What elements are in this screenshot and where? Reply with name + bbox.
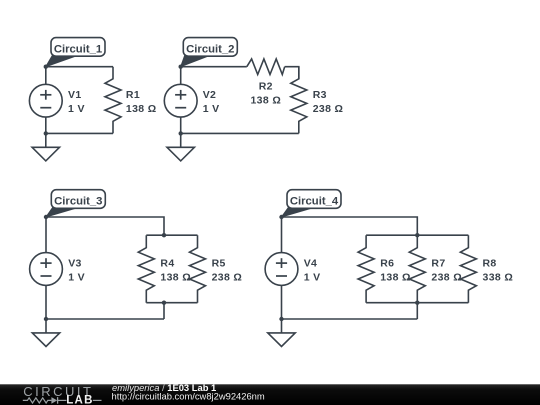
node junction bottom-left circuit 3 (44, 317, 48, 321)
svg-text:138 Ω: 138 Ω (250, 95, 281, 107)
net flag Circuit_2 (181, 38, 238, 67)
svg-text:338 Ω: 338 Ω (483, 272, 514, 284)
resistor R2 (247, 59, 285, 75)
wire top circuit 3 (46, 217, 164, 235)
ground (32, 319, 59, 347)
svg-text:138 Ω: 138 Ω (126, 103, 157, 115)
svg-text:Circuit_2: Circuit_2 (186, 43, 234, 55)
svg-text:238 Ω: 238 Ω (313, 103, 344, 115)
wire V4 bottom lead (281, 285, 283, 319)
node junction bottom-left circuit 1 (44, 131, 48, 135)
net flag Circuit_1 (46, 38, 105, 67)
voltage source V4 (circuit 4) (265, 253, 298, 286)
svg-text:R8: R8 (483, 258, 497, 270)
node junction top-left circuit 1 (44, 65, 48, 69)
voltage source V3 (circuit 3) (30, 253, 63, 286)
svg-text:Circuit_4: Circuit_4 (290, 196, 339, 208)
svg-text:R1: R1 (126, 89, 140, 101)
ground (167, 133, 194, 161)
wire V2 top lead (180, 67, 182, 85)
wire bottom circuit 4 (282, 318, 418, 320)
ground (268, 319, 295, 347)
node junction top bar circuit 3 (162, 233, 166, 237)
wire top (node Circuit_1 to R1) (46, 66, 113, 68)
wire top bar parallel R4 R5 (146, 234, 197, 236)
wire top circuit 4 (282, 217, 418, 235)
resistor R3 (291, 67, 307, 134)
net flag Circuit_3 (46, 190, 105, 217)
wire top (node Circuit_2 to R2) (181, 66, 247, 68)
resistor R4 (138, 235, 154, 303)
node junction top-left circuit 3 (44, 215, 48, 219)
wire R2 to corner (285, 67, 299, 80)
node junction bottom-left circuit 4 (279, 317, 283, 321)
wire V2 bottom lead (180, 117, 182, 133)
resistor R5 (190, 235, 206, 303)
voltage source V1 (circuit 1) (29, 84, 62, 117)
node junction top-left circuit 2 (179, 65, 183, 69)
svg-text:238 Ω: 238 Ω (431, 272, 462, 284)
node junction bottom-left circuit 2 (179, 131, 183, 135)
svg-text:http://circuitlab.com/cw8j2w92: http://circuitlab.com/cw8j2w92426nm (112, 391, 265, 402)
wire mid down circuit 3 (163, 303, 165, 319)
svg-text:1 V: 1 V (68, 271, 85, 283)
wire bottom (46, 132, 113, 134)
svg-text:1 V: 1 V (68, 103, 85, 115)
net flag Circuit_4 (282, 190, 342, 217)
ground (32, 133, 59, 161)
svg-text:V2: V2 (203, 89, 217, 101)
svg-text:R7: R7 (431, 258, 445, 270)
resistor R7 (409, 235, 425, 303)
wire V1 top lead (45, 67, 47, 85)
wire V4 top lead (281, 217, 283, 253)
svg-text:V4: V4 (304, 257, 318, 269)
wire V3 top lead (45, 217, 47, 253)
svg-text:R6: R6 (380, 258, 394, 270)
footer bar (0, 384, 540, 405)
wire bottom circuit 3 (46, 318, 164, 320)
svg-text:1 V: 1 V (304, 271, 321, 283)
node junction bottom bar circuit 3 (162, 301, 166, 305)
wire bottom bar parallel R4 R5 (146, 302, 197, 304)
resistor R1 (105, 67, 121, 134)
svg-text:V3: V3 (68, 257, 82, 269)
wire V3 bottom lead (45, 285, 47, 319)
voltage source V2 (circuit 2) (164, 84, 197, 117)
svg-text:R3: R3 (313, 89, 327, 101)
svg-text:V1: V1 (68, 89, 82, 101)
node junction bottom bar circuit 4 (415, 301, 419, 305)
resistor R6 (358, 235, 374, 303)
wire bottom bar parallel R6 R7 R8 (366, 302, 468, 304)
node junction top bar circuit 4 (415, 233, 419, 237)
CircuitLab logo schematic line with resistor (23, 398, 52, 403)
wire V1 bottom lead (45, 117, 47, 133)
wire top bar parallel R6 R7 R8 (366, 234, 468, 236)
CircuitLab logo diode (51, 397, 57, 404)
node junction top-left circuit 4 (279, 215, 283, 219)
svg-text:1 V: 1 V (203, 103, 220, 115)
svg-text:138 Ω: 138 Ω (380, 272, 411, 284)
svg-text:R4: R4 (160, 258, 174, 270)
svg-text:138 Ω: 138 Ω (160, 272, 191, 284)
resistor R8 (460, 235, 476, 303)
svg-text:R2: R2 (259, 81, 273, 93)
svg-text:R5: R5 (212, 258, 226, 270)
svg-text:Circuit_1: Circuit_1 (54, 43, 102, 55)
svg-text:Circuit_3: Circuit_3 (54, 196, 102, 208)
wire mid down circuit 4 (416, 303, 418, 319)
svg-text:LAB: LAB (66, 395, 94, 405)
svg-text:238 Ω: 238 Ω (212, 272, 243, 284)
wire bottom circuit 2 (181, 132, 299, 134)
